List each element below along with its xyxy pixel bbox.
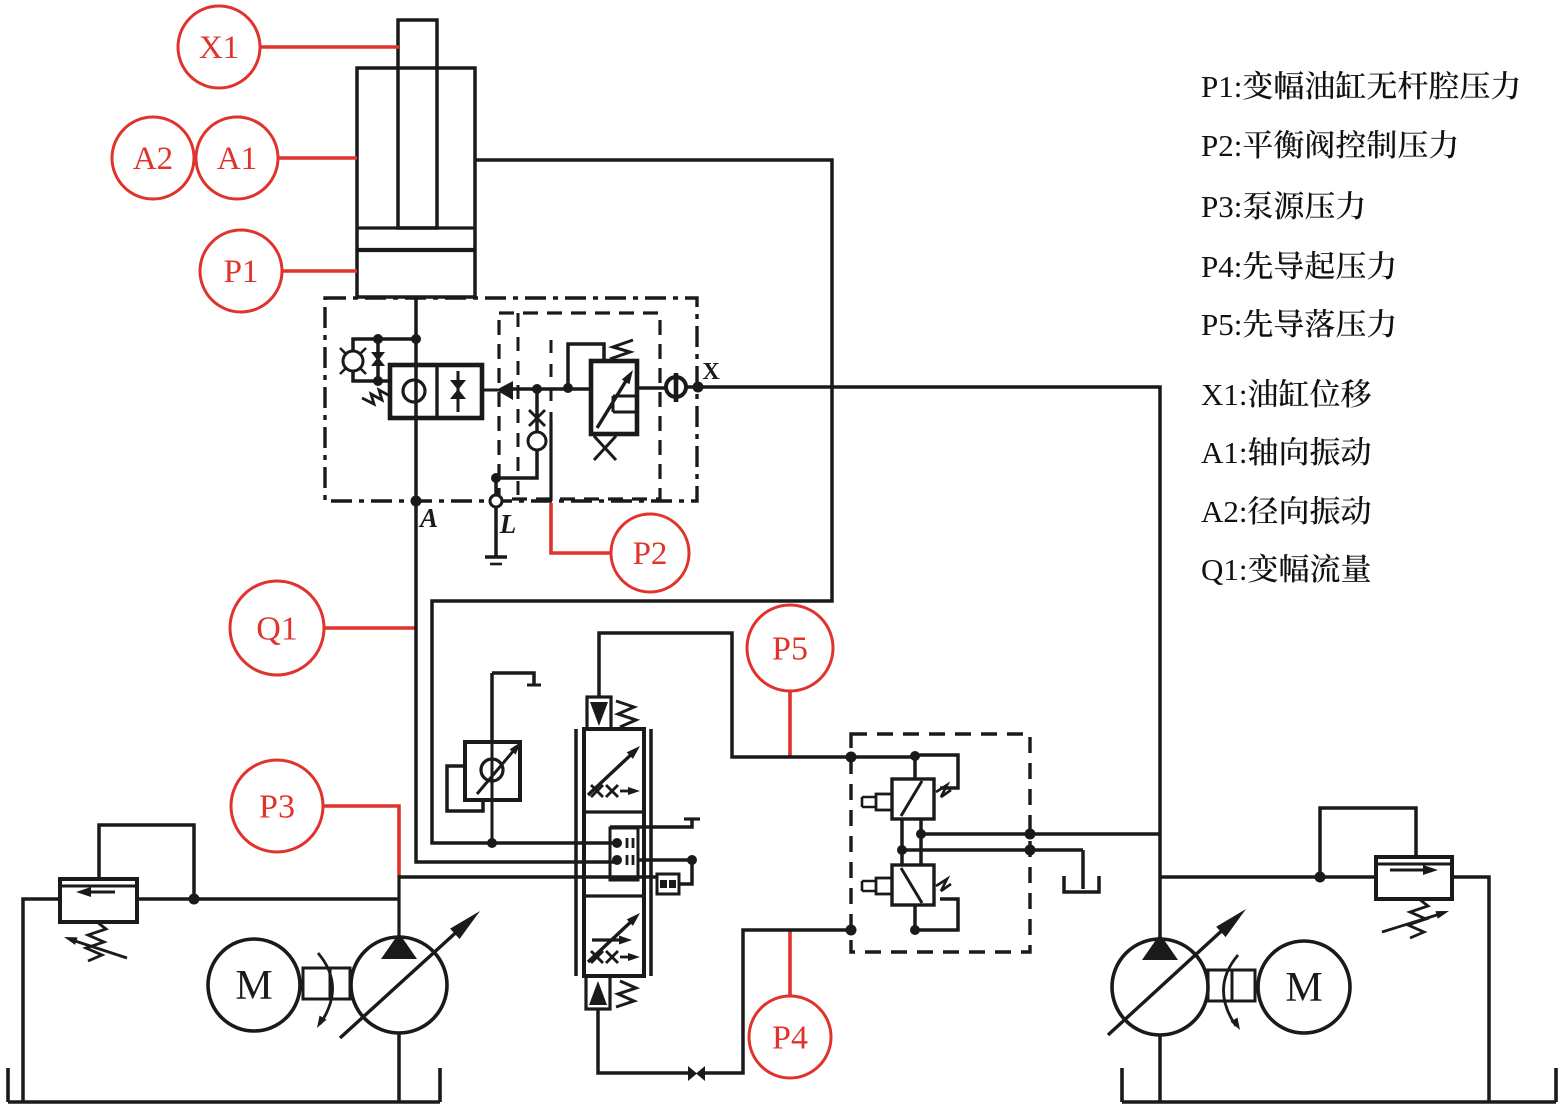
- svg-text:A: A: [418, 503, 438, 533]
- svg-text:A1: A1: [217, 141, 257, 177]
- svg-text:P5:先导落压力: P5:先导落压力: [1201, 307, 1397, 342]
- svg-text:P2:平衡阀控制压力: P2:平衡阀控制压力: [1201, 128, 1459, 163]
- svg-text:A2:径向振动: A2:径向振动: [1201, 494, 1372, 529]
- svg-text:P2: P2: [633, 536, 668, 572]
- svg-text:A1:轴向振动: A1:轴向振动: [1201, 435, 1372, 470]
- svg-text:P3: P3: [259, 789, 295, 826]
- svg-text:P4: P4: [772, 1020, 808, 1057]
- svg-text:P4:先导起压力: P4:先导起压力: [1201, 249, 1397, 284]
- svg-text:P1: P1: [224, 254, 259, 290]
- svg-text:Q1: Q1: [256, 611, 298, 648]
- svg-text:Q1:变幅流量: Q1:变幅流量: [1201, 552, 1372, 587]
- svg-text:X1:油缸位移: X1:油缸位移: [1201, 377, 1372, 412]
- svg-text:L: L: [499, 509, 517, 539]
- svg-text:M: M: [235, 963, 272, 1009]
- svg-text:P3:泵源压力: P3:泵源压力: [1201, 189, 1366, 224]
- svg-text:A2: A2: [133, 141, 173, 177]
- svg-text:X1: X1: [199, 30, 239, 66]
- svg-text:M: M: [1285, 965, 1322, 1011]
- svg-text:P5: P5: [772, 631, 808, 668]
- svg-text:P1:变幅油缸无杆腔压力: P1:变幅油缸无杆腔压力: [1201, 69, 1521, 104]
- svg-text:X: X: [702, 359, 720, 385]
